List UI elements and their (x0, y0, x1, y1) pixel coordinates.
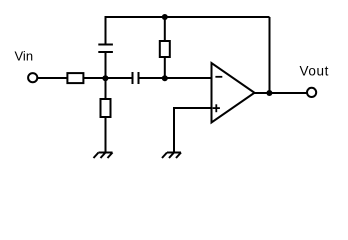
wire node A to C2 left plate (106, 77, 133, 79)
node B junction dot (162, 75, 168, 81)
wire top rail down to output node (269, 17, 271, 93)
resistor R2 (shunt to ground) (101, 99, 111, 117)
svg-text:Vin: Vin (15, 49, 34, 64)
wire op-amp non-inverting input to ground (174, 107, 212, 153)
resistor R3 (feedback, vertical) (160, 41, 170, 57)
capacitor C2 (series) (133, 72, 139, 84)
op-amp non-inverting pin label + (213, 104, 220, 112)
resistor R1 (series input) (67, 73, 83, 83)
wire R2 to ground (105, 117, 107, 153)
output terminal Vout (307, 88, 316, 97)
wire C2 to node B (139, 77, 165, 79)
node on top rail junction dot (162, 14, 168, 20)
output node junction dot (266, 90, 272, 96)
op-amp inverting pin label - (215, 76, 222, 78)
wire node B to op-amp inverting input (165, 77, 212, 79)
wire R3 bottom to node B (164, 57, 166, 78)
ground (left, chassis) (94, 153, 113, 159)
wire Vin terminal to R1 (37, 77, 67, 79)
node A junction dot (102, 75, 108, 81)
ground (right, chassis) (162, 153, 181, 159)
wire R1 to node A (83, 77, 105, 79)
wire op-amp output (255, 92, 308, 94)
svg-text:Vout: Vout (300, 64, 329, 79)
input terminal Vin (28, 73, 37, 82)
op-amp U1 (212, 63, 255, 123)
wire node A down to R2 (105, 78, 107, 99)
capacitor C1 (node A up to top rail) (98, 16, 113, 79)
wire node B up branch (164, 17, 166, 41)
wire top rail (105, 16, 270, 18)
